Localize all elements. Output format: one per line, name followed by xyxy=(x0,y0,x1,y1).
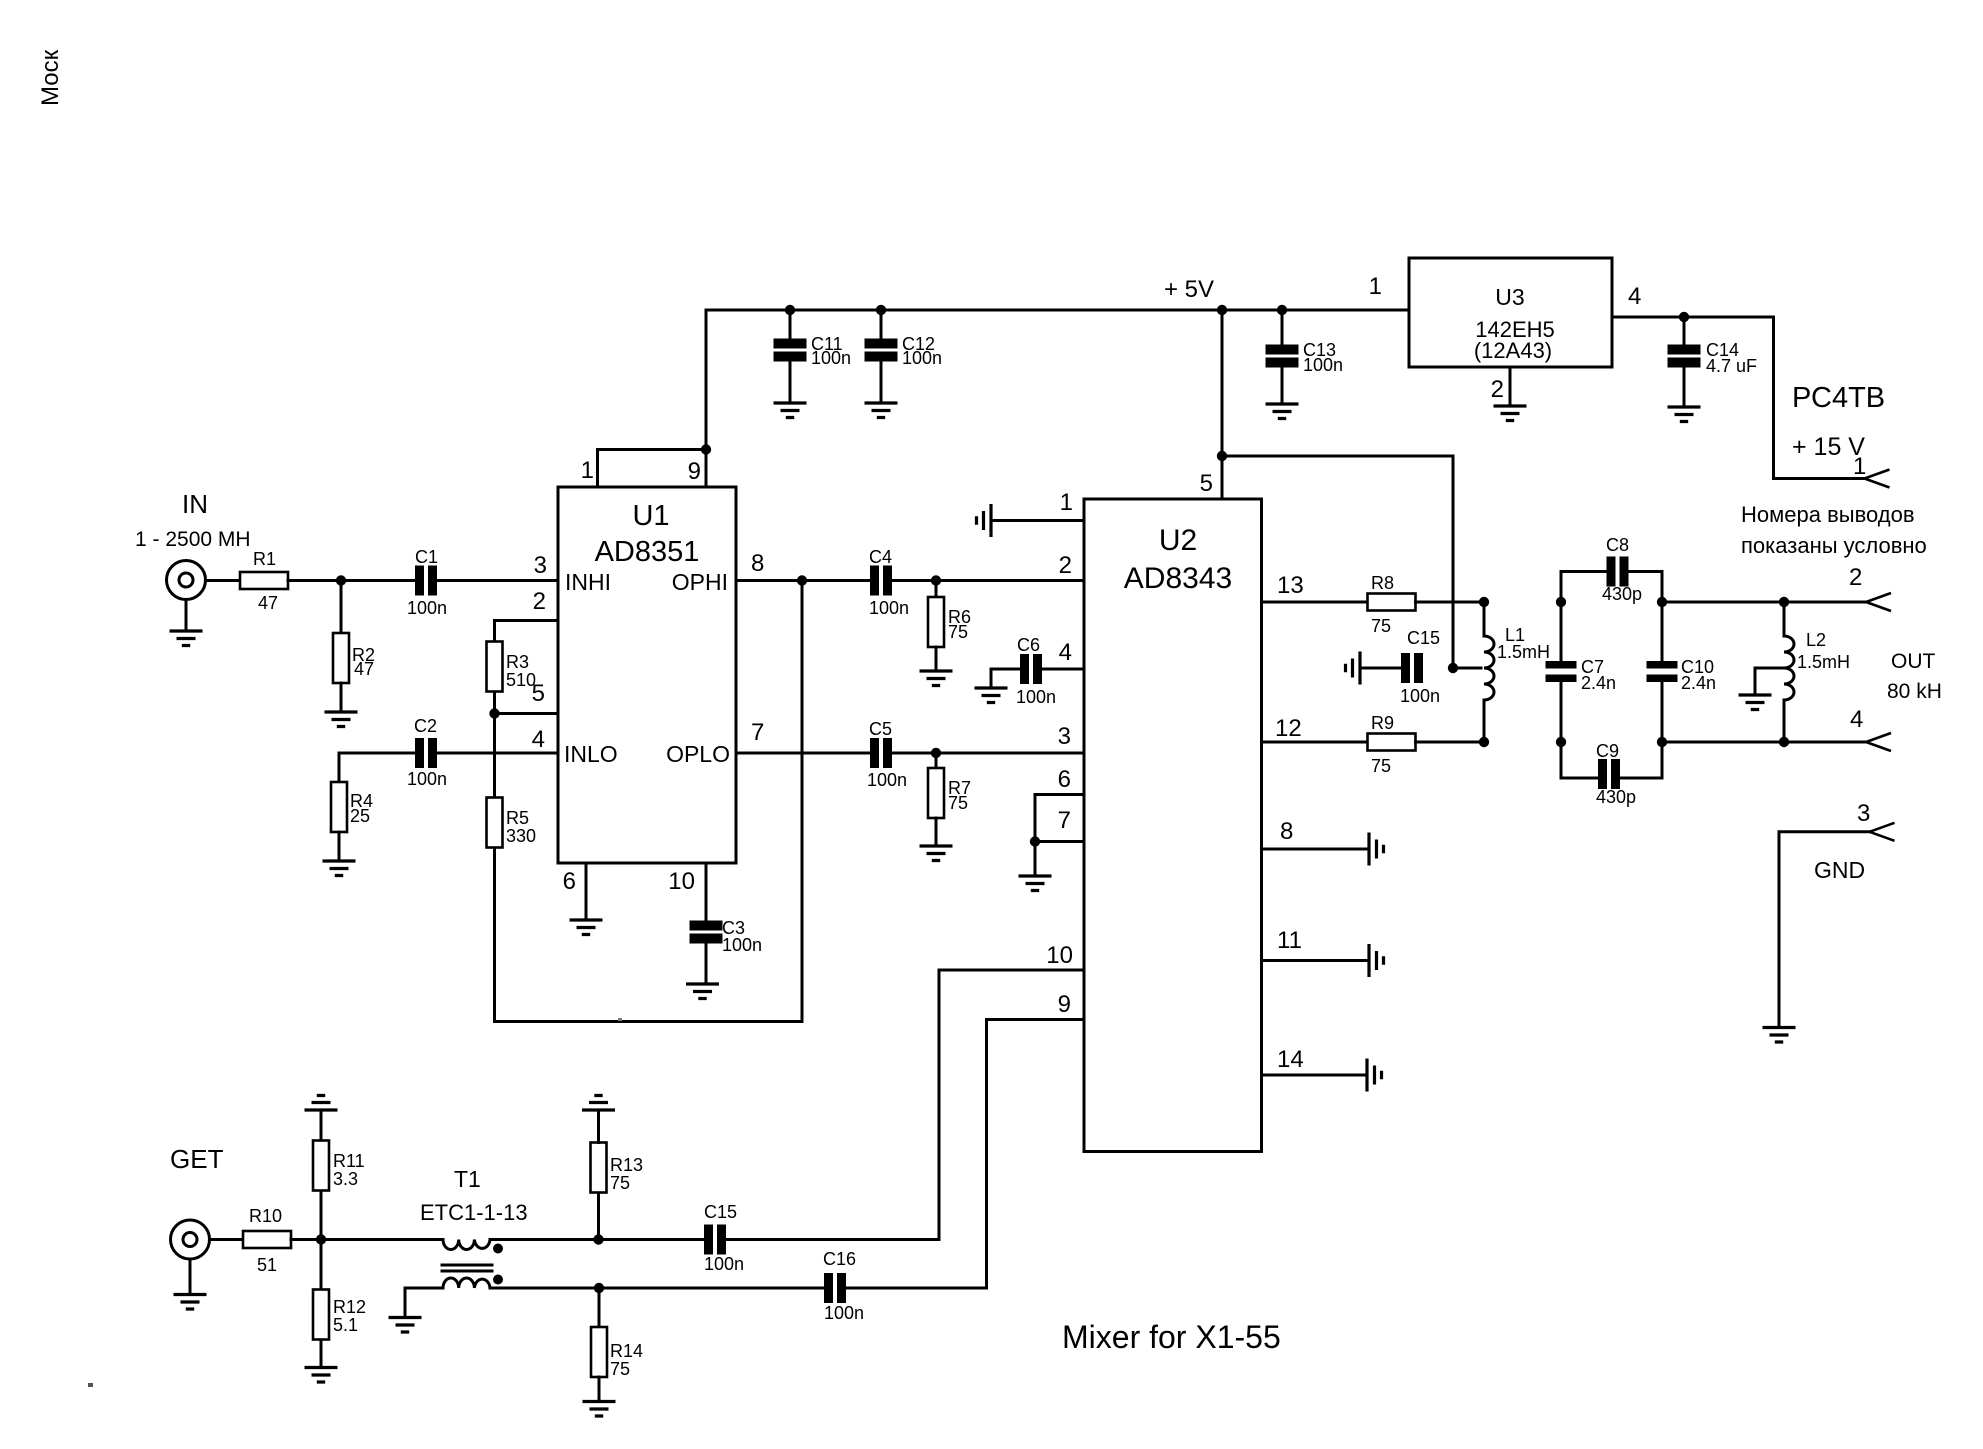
svg-text:100n: 100n xyxy=(704,1254,744,1274)
wire R12 to ground xyxy=(320,1342,323,1367)
svg-text:INLO: INLO xyxy=(564,741,618,767)
connector pin4 arrow xyxy=(1866,733,1891,751)
wire OUT hi line xyxy=(1662,601,1866,604)
resistor R1 xyxy=(240,572,288,589)
wire C4 to U2 pin2 xyxy=(892,579,1084,582)
svg-text:100n: 100n xyxy=(869,598,909,618)
node R6 junction xyxy=(931,575,941,585)
svg-text:L2: L2 xyxy=(1806,630,1826,650)
svg-text:11: 11 xyxy=(1277,927,1302,954)
svg-text:51: 51 xyxy=(257,1255,277,1275)
svg-text:100n: 100n xyxy=(811,348,851,368)
svg-text:14: 14 xyxy=(1277,1046,1304,1073)
wire node to R6 xyxy=(935,581,938,600)
svg-text:1.5mH: 1.5mH xyxy=(1797,652,1850,672)
wire R4 to ground xyxy=(338,832,341,860)
wire IN to R1 xyxy=(206,579,241,582)
wire GND connector xyxy=(1779,832,1870,1027)
wire U2 pin7 xyxy=(1035,840,1084,843)
svg-text:8: 8 xyxy=(1280,818,1293,845)
svg-text:75: 75 xyxy=(1371,756,1391,776)
svg-text:100n: 100n xyxy=(407,598,447,618)
ground under C6 xyxy=(975,688,1008,703)
svg-text:8: 8 xyxy=(751,550,764,577)
phase dot T1 secondary xyxy=(493,1275,503,1285)
wire U2 pin10 to LO line xyxy=(939,970,1084,1240)
wire C15 junction to L1 tap xyxy=(1453,667,1481,670)
svg-text:1: 1 xyxy=(1369,273,1382,300)
node R14 junction xyxy=(594,1283,604,1293)
ground under R6 xyxy=(920,671,953,686)
node C7 bottom xyxy=(1556,737,1566,747)
svg-text:INHI: INHI xyxy=(565,569,611,595)
node R13 junction xyxy=(593,1234,603,1244)
ground under R14 xyxy=(583,1402,616,1417)
resistor R7 xyxy=(928,768,944,818)
svg-text:4.7 uF: 4.7 uF xyxy=(1706,356,1757,376)
svg-text:2.4n: 2.4n xyxy=(1681,673,1716,693)
svg-text:R5: R5 xyxy=(506,808,529,828)
svg-text:+ 5V: + 5V xyxy=(1164,276,1214,303)
svg-text:1: 1 xyxy=(1060,489,1073,516)
svg-text:Mixer for X1-55: Mixer for X1-55 xyxy=(1062,1319,1281,1355)
wire T1 secondary to C16 xyxy=(490,1287,824,1290)
wire junction to ground xyxy=(1034,842,1037,876)
capacitor C7 xyxy=(1546,602,1577,742)
ground under C14 xyxy=(1668,407,1701,422)
svg-text:1 - 2500 МН: 1 - 2500 МН xyxy=(135,528,251,551)
capacitor C8 branch xyxy=(1561,557,1662,603)
svg-text:R10: R10 xyxy=(249,1206,282,1226)
ground under U1 pin6 xyxy=(570,920,603,935)
wire GET to ground xyxy=(189,1259,192,1294)
wire feedback loop to OPHI xyxy=(495,581,803,1022)
wire R7 to ground xyxy=(935,818,938,845)
svg-text:(12А43): (12А43) xyxy=(1474,338,1552,363)
resistor R11 xyxy=(313,1141,329,1191)
svg-text:R14: R14 xyxy=(610,1341,643,1361)
node L1 top xyxy=(1479,597,1489,607)
wire C16 to U2 pin9 riser xyxy=(846,1287,987,1290)
svg-text:100n: 100n xyxy=(407,769,447,789)
wire U2 pin11 to ground xyxy=(1262,959,1369,962)
speckle dot mid xyxy=(618,1018,622,1021)
wire node to R14 xyxy=(598,1288,601,1327)
wire node to R12 xyxy=(320,1240,323,1288)
node rail to U2 pin5 vertical xyxy=(1217,305,1227,315)
wire OPLO to C5 xyxy=(736,752,870,755)
svg-text:47: 47 xyxy=(354,659,374,679)
ground at T1 secondary xyxy=(389,1318,422,1333)
wire U1 pin10 to C3 xyxy=(705,863,708,983)
capacitor C13 xyxy=(1266,305,1299,403)
wire GET to R10 xyxy=(210,1238,244,1241)
IN connector xyxy=(167,561,206,600)
resistor R12 xyxy=(313,1290,329,1340)
svg-text:C4: C4 xyxy=(869,547,892,567)
svg-text:ETC1-1-13: ETC1-1-13 xyxy=(420,1200,528,1225)
svg-text:R3: R3 xyxy=(506,652,529,672)
wire U3 pin4 to +15V corner xyxy=(1612,317,1865,479)
svg-text:12: 12 xyxy=(1275,715,1302,742)
svg-text:4: 4 xyxy=(1059,639,1072,666)
svg-text:AD8343: AD8343 xyxy=(1124,562,1232,595)
svg-text:330: 330 xyxy=(506,826,536,846)
node R7 junction xyxy=(931,748,941,758)
svg-text:2: 2 xyxy=(1849,564,1862,591)
transformer T1 core xyxy=(442,1265,492,1271)
svg-text:OPLO: OPLO xyxy=(666,741,730,767)
svg-text:OPHI: OPHI xyxy=(672,569,728,595)
ground above R13 xyxy=(582,1096,615,1111)
inductor L1 xyxy=(1484,602,1494,742)
mixer U2 box xyxy=(1084,499,1262,1152)
svg-text:100n: 100n xyxy=(824,1303,864,1323)
svg-text:C8: C8 xyxy=(1606,535,1629,555)
svg-text:75: 75 xyxy=(610,1359,630,1379)
capacitor C6 xyxy=(1020,654,1042,684)
wire C15 to U2 pin10 riser xyxy=(726,1238,939,1241)
ground under GET xyxy=(174,1295,207,1310)
amplifier U1 box xyxy=(558,487,736,863)
resistor R14 xyxy=(591,1327,607,1377)
svg-text:9: 9 xyxy=(688,458,701,485)
wire node to R7 xyxy=(935,753,938,770)
svg-text:GND: GND xyxy=(1814,857,1865,883)
svg-text:6: 6 xyxy=(563,868,576,895)
ground under R2 xyxy=(325,712,358,727)
transformer T1 primary winding xyxy=(443,1240,490,1250)
wire R9 to L1 bottom xyxy=(1416,741,1485,744)
svg-text:100n: 100n xyxy=(1303,355,1343,375)
capacitor C5 xyxy=(870,738,892,768)
svg-text:C16: C16 xyxy=(823,1249,856,1269)
wire bias to C15 xyxy=(1222,456,1453,668)
svg-text:100n: 100n xyxy=(902,348,942,368)
svg-text:5: 5 xyxy=(1200,470,1213,497)
resistor R9 xyxy=(1368,734,1416,751)
wire OPHI to C4 xyxy=(736,579,870,582)
node feedback at OPHI xyxy=(797,575,807,585)
svg-text:100n: 100n xyxy=(1016,687,1056,707)
ground right at U2 pin14 xyxy=(1367,1059,1382,1092)
svg-text:7: 7 xyxy=(751,719,764,746)
svg-text:2: 2 xyxy=(533,588,546,615)
resistor R6 xyxy=(928,597,944,647)
resistor R5 xyxy=(487,798,503,848)
wire U2 pin4 to C6 xyxy=(1042,668,1084,671)
svg-text:2: 2 xyxy=(1491,376,1504,403)
node pin6/7 junction xyxy=(1030,836,1040,846)
svg-text:430p: 430p xyxy=(1596,787,1636,807)
wire +5V rail xyxy=(706,310,1409,450)
svg-text:1: 1 xyxy=(581,457,594,484)
capacitor C10 xyxy=(1647,602,1678,742)
resistor R13 xyxy=(591,1143,607,1193)
svg-text:4: 4 xyxy=(532,726,545,753)
capacitor C1 xyxy=(415,566,437,596)
capacitor C15 (LO input) xyxy=(704,1225,726,1255)
connector pin2 arrow xyxy=(1866,593,1891,611)
svg-text:T1: T1 xyxy=(454,1166,481,1192)
wire node to R13 xyxy=(597,1193,600,1240)
node C15 bias junction xyxy=(1448,663,1458,673)
wire U2 pin6 xyxy=(1035,795,1084,842)
svg-text:47: 47 xyxy=(258,593,278,613)
connector pin3 arrow xyxy=(1870,823,1895,841)
wire U3 pin2 stub xyxy=(1509,367,1512,405)
node C7 top xyxy=(1556,597,1566,607)
resistor R8 xyxy=(1368,594,1416,611)
wire R11 to top ground xyxy=(320,1110,323,1140)
connector pin1 arrow xyxy=(1865,470,1890,488)
node L2 bottom xyxy=(1779,737,1789,747)
svg-text:75: 75 xyxy=(610,1173,630,1193)
capacitor C14 xyxy=(1668,312,1701,406)
svg-text:9: 9 xyxy=(1058,991,1071,1018)
svg-text:100n: 100n xyxy=(1400,686,1440,706)
svg-text:75: 75 xyxy=(1371,616,1391,636)
wire U2 pin8 to ground xyxy=(1262,848,1369,851)
svg-text:10: 10 xyxy=(1046,942,1073,969)
wire U1 pin2 to R3 xyxy=(495,621,559,644)
ground under U2 pin7 xyxy=(1019,876,1052,891)
wire node to R11 xyxy=(320,1193,323,1240)
wire node to R2 xyxy=(340,581,343,635)
ground right at U2 pin8 xyxy=(1369,833,1384,866)
svg-text:75: 75 xyxy=(948,622,968,642)
wire U2 pin13 to R8 xyxy=(1262,601,1369,604)
wire C6 to ground xyxy=(991,669,1020,687)
svg-text:C15: C15 xyxy=(704,1202,737,1222)
svg-text:Номера выводов: Номера выводов xyxy=(1741,502,1915,527)
svg-text:4: 4 xyxy=(1628,283,1641,310)
capacitor C9 branch xyxy=(1561,742,1662,789)
wire R8 to L1 xyxy=(1416,601,1485,604)
wire R1 to C1 xyxy=(288,579,415,582)
resistor R3 xyxy=(487,642,503,692)
capacitor C2 xyxy=(415,738,437,768)
ground under R7 xyxy=(920,846,953,861)
svg-text:C5: C5 xyxy=(869,719,892,739)
svg-text:2.4n: 2.4n xyxy=(1581,673,1616,693)
node L1 bottom xyxy=(1479,737,1489,747)
svg-text:1: 1 xyxy=(1853,453,1866,480)
capacitor C15 (bias decoupling) xyxy=(1401,653,1423,683)
wire U2 pin9 to LO line xyxy=(987,1020,1085,1289)
svg-text:C1: C1 xyxy=(415,547,438,567)
transformer T1 secondary winding xyxy=(443,1278,490,1288)
wire junction down to R5 xyxy=(493,714,496,799)
ground right at U2 pin11 xyxy=(1369,944,1384,977)
resistor R10 xyxy=(243,1231,291,1248)
capacitor C12 xyxy=(865,305,898,402)
capacitor C4 xyxy=(870,566,892,596)
wire C2 left to R4 xyxy=(339,753,415,783)
wire T1 primary to C15 xyxy=(490,1238,706,1241)
ground under R4 xyxy=(323,861,356,876)
wire T1 secondary left to ground xyxy=(405,1288,443,1317)
node L2 top xyxy=(1779,597,1789,607)
wire R3 to pin5 junction xyxy=(495,692,559,714)
svg-text:C2: C2 xyxy=(414,716,437,736)
wire U2 pin12 to R9 xyxy=(1262,741,1369,744)
svg-text:5.1: 5.1 xyxy=(333,1315,358,1335)
node C10 top xyxy=(1657,597,1667,607)
svg-text:R8: R8 xyxy=(1371,573,1394,593)
ground at L2 tap xyxy=(1739,695,1772,710)
wire R6 to ground xyxy=(935,647,938,670)
inductor L2 xyxy=(1784,602,1794,742)
ground under C11 xyxy=(774,403,807,418)
svg-text:3: 3 xyxy=(1857,800,1870,827)
svg-text:2: 2 xyxy=(1059,552,1072,579)
svg-text:510: 510 xyxy=(506,670,536,690)
ground under R12 xyxy=(305,1368,338,1383)
svg-text:C15: C15 xyxy=(1407,628,1440,648)
svg-text:80 kH: 80 kH xyxy=(1887,680,1942,703)
wire R14 to ground xyxy=(598,1377,601,1401)
svg-text:75: 75 xyxy=(948,793,968,813)
resistor R2 xyxy=(333,633,349,683)
capacitor C11 xyxy=(774,305,807,402)
svg-text:OUT: OUT xyxy=(1891,650,1936,673)
ground under U3 pin2 xyxy=(1494,406,1527,421)
speckle dot bottom left xyxy=(88,1383,93,1387)
svg-text:3: 3 xyxy=(534,552,547,579)
svg-text:430p: 430p xyxy=(1602,584,1642,604)
svg-text:R9: R9 xyxy=(1371,713,1394,733)
node R11/R12 junction xyxy=(316,1234,326,1244)
wire C2 to U1 pin4 xyxy=(437,752,558,755)
svg-text:U1: U1 xyxy=(632,500,669,532)
svg-text:10: 10 xyxy=(668,868,695,895)
wire C5 to U2 pin3 xyxy=(892,752,1084,755)
svg-text:показаны условно: показаны условно xyxy=(1741,533,1927,558)
wire L2 tap to ground xyxy=(1755,668,1784,694)
wire U2 pin1 to ground xyxy=(992,519,1084,522)
svg-text:GET: GET xyxy=(170,1144,224,1174)
svg-text:1.5mH: 1.5mH xyxy=(1497,642,1550,662)
ground under IN xyxy=(170,631,203,646)
svg-text:6: 6 xyxy=(1058,766,1071,793)
node R3/R5 junction xyxy=(489,708,499,718)
svg-text:R13: R13 xyxy=(610,1155,643,1175)
resistor R4 xyxy=(331,782,347,832)
wire U2 pin5 from rail xyxy=(1221,310,1224,499)
svg-text:7: 7 xyxy=(1058,807,1071,834)
ground under C13 xyxy=(1266,404,1299,419)
svg-text:R11: R11 xyxy=(333,1151,365,1171)
regulator U3 box xyxy=(1409,258,1612,367)
wire C15 to ground xyxy=(1361,667,1401,670)
svg-text:R1: R1 xyxy=(253,549,276,569)
wire U1 pin1 over to pin9 net xyxy=(598,450,707,488)
wire U2 pin14 to ground xyxy=(1262,1074,1367,1077)
svg-text:U3: U3 xyxy=(1495,284,1524,310)
capacitor C3 xyxy=(690,921,723,944)
svg-text:R12: R12 xyxy=(333,1297,366,1317)
svg-text:C6: C6 xyxy=(1017,635,1040,655)
svg-text:3: 3 xyxy=(1058,723,1071,750)
svg-text:3.3: 3.3 xyxy=(333,1169,358,1189)
wire R2 to ground xyxy=(340,683,343,711)
svg-text:РС4ТВ: РС4ТВ xyxy=(1792,382,1885,414)
node C10 bottom xyxy=(1657,737,1667,747)
svg-text:25: 25 xyxy=(350,806,370,826)
wire C1 to U1 pin3 xyxy=(437,579,558,582)
node R1/R2 junction xyxy=(336,575,346,585)
svg-text:13: 13 xyxy=(1277,572,1304,599)
ground under C3 xyxy=(686,984,719,999)
svg-text:C9: C9 xyxy=(1596,741,1619,761)
svg-text:100n: 100n xyxy=(867,770,907,790)
wire OUT lo line xyxy=(1662,741,1866,744)
svg-text:AD8351: AD8351 xyxy=(595,536,700,568)
ground above R11 xyxy=(305,1096,338,1111)
capacitor C16 xyxy=(824,1273,846,1303)
wire R10 to T1 xyxy=(291,1238,443,1241)
wire R13 to top ground xyxy=(597,1110,600,1143)
wire U1 pin6 stub xyxy=(585,863,588,919)
ground left at U2 pin1 xyxy=(977,504,992,537)
node pin5 bias junction xyxy=(1217,451,1227,461)
wire IN to ground xyxy=(185,600,188,631)
GET connector xyxy=(171,1220,210,1259)
svg-text:Моск: Моск xyxy=(37,49,64,106)
phase dot T1 primary xyxy=(493,1244,503,1254)
node U1 pin9 junction xyxy=(701,444,711,454)
ground left at C15 xyxy=(1346,652,1361,685)
svg-text:IN: IN xyxy=(182,489,208,519)
ground at GND connector xyxy=(1763,1028,1796,1043)
svg-text:100n: 100n xyxy=(722,935,762,955)
ground under C12 xyxy=(865,403,898,418)
svg-text:4: 4 xyxy=(1850,706,1863,733)
svg-text:U2: U2 xyxy=(1159,524,1197,557)
